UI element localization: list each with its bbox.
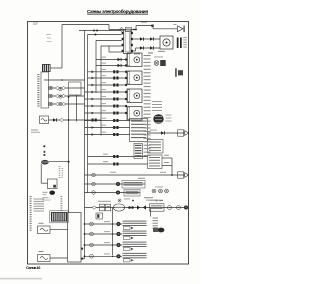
wire: sensor box outputs [162, 157, 172, 159]
node label: sensor text y=224 [123, 221, 147, 222]
wire: diagram border frame [28, 22, 189, 265]
switch box S3 [48, 179, 58, 189]
fuse F3 [38, 255, 51, 262]
wire: harness row y=113 [85, 112, 128, 114]
sensor B6 [116, 254, 120, 258]
wire: sensor row y=245 [85, 244, 123, 246]
node splice pair on fuse row [92, 119, 94, 122]
wire: fuse F2 to ECU [50, 229, 68, 231]
injector Y1 [127, 53, 142, 67]
node switch pin y=33 [122, 32, 124, 34]
wire: chain drop to label [150, 208, 152, 217]
relay box K3 [148, 140, 164, 154]
node label: sensor text y=234 [123, 231, 147, 232]
fuse F1 with symbol [40, 116, 49, 124]
node splice pair y=71.8 [113, 70, 115, 73]
node splice pair y=127.5 [113, 126, 115, 129]
wire: switch feed row 1 [79, 30, 122, 32]
wire: main harness bus 2 [87, 35, 89, 194]
connector X8 hatched [50, 211, 68, 223]
node test point [118, 199, 121, 202]
wire: battery feed top [108, 25, 110, 30]
wire: sensor feed y=184 [85, 183, 146, 185]
ECU main box bottom [68, 213, 82, 263]
connector oval X6 [113, 204, 125, 211]
wire: harness row y=127.5 [85, 127, 131, 129]
wire: switch row 5 [109, 51, 122, 53]
sensor B1 oval [41, 160, 49, 165]
node label: ECU side text [61, 196, 63, 197]
node marks y=200 right [156, 200, 158, 202]
wire: harness row y=78 [88, 77, 128, 79]
wire: sensor feed y=192.5 [85, 192, 141, 194]
wire: harness row y=85 [88, 84, 128, 86]
connector X1 (hatched) [42, 64, 51, 72]
injector Y3 [127, 89, 142, 103]
node label: ECU pin labels column [144, 55, 151, 56]
capacitor C1 double bar [177, 38, 179, 49]
node label: motor labels [183, 37, 187, 38]
node splice pair y=78 [113, 77, 115, 80]
node label: rotated text left margin [30, 196, 32, 197]
node label: rotated text central block [37, 74, 39, 75]
node splice pair y=99 [113, 98, 115, 101]
node label: faint text top-left [33, 23, 38, 24]
node contact column [59, 87, 62, 90]
wire: switch row 4 [101, 45, 122, 47]
sensor G1 [175, 68, 176, 77]
node splice pair y=134.5 [113, 133, 115, 136]
node splice column [43, 145, 45, 147]
wire: feed bus 4 [100, 46, 102, 136]
svg-text:Схемы электрооборудования: Схемы электрооборудования [87, 8, 148, 14]
ground terminal right [184, 206, 188, 210]
wire: dots on collector [68, 119, 70, 121]
ECU U1 box [130, 119, 148, 142]
node label box on chain [150, 204, 165, 211]
relay K2 box [69, 82, 82, 95]
sensor B3 [116, 222, 120, 226]
diode V2 [118, 64, 121, 67]
sensor B0 oval [49, 191, 55, 195]
wire: ECU pin stub [83, 258, 85, 260]
sensor B5 [116, 243, 120, 247]
wire: relay block feed [44, 79, 85, 81]
wire: main harness bus 1 [84, 31, 86, 259]
node splice pair y=85 [113, 84, 115, 87]
node switch pin y=39 [122, 38, 124, 40]
wire: relay K2 drop [76, 95, 78, 122]
wire: harness row y=65.5 [96, 65, 127, 67]
node label: sensor text y=256.3 [123, 253, 147, 254]
sensor box B2 [148, 155, 163, 169]
wire: junction dots on branch bus [112, 223, 114, 225]
wire: harness row y=106 [85, 105, 128, 107]
diode V1 [118, 58, 121, 61]
wire: harness row y=71.8 [88, 71, 128, 73]
wire: switch row 3 [96, 40, 122, 42]
wire: accessory row 2 [133, 50, 136, 52]
wire: harness row y=92 [85, 91, 128, 93]
wire: main feed y=175 [85, 174, 187, 176]
wire: fuse F1 output [49, 119, 102, 121]
wire: output to right edge y=133 [148, 132, 185, 134]
wire: switch feed row 2 [88, 34, 122, 36]
wire: harness row y=134.5 [85, 134, 131, 136]
node label: text block bottom left [34, 199, 45, 200]
wire: fuse F3 to ECU [50, 257, 68, 259]
wire: harness row y=59.5 [96, 59, 127, 61]
node splice pair y=92 [113, 91, 115, 94]
connector X7 bundle [158, 228, 165, 233]
node label: text above connector X5 [152, 101, 162, 102]
node splice pair y=106 [113, 105, 115, 108]
relay box K (central relay unit) [41, 72, 49, 108]
node splice pair y=113 [113, 112, 115, 115]
wire: left collector [68, 97, 70, 213]
fuse F2 [38, 226, 51, 234]
motor M1 (pump) [160, 36, 173, 49]
node label: sensor text y=245 [123, 242, 147, 243]
node splice dots [128, 206, 131, 209]
node ECU pins right edge [81, 248, 83, 250]
wire: lower branch bus [112, 208, 114, 256]
wire: accessory row 1 [133, 38, 160, 40]
node switch pin y=45 [122, 44, 124, 46]
connector block pair [100, 204, 105, 211]
sensor B4 [116, 232, 120, 236]
node label above connector [98, 201, 111, 202]
injector Y4 [127, 107, 142, 121]
connector cluster X9 [152, 189, 156, 193]
wire: harness row y=99 [85, 98, 128, 100]
injector Y2 [127, 71, 142, 85]
node switch pin y=51 [122, 50, 124, 52]
wire: sensor row y=256.3 [85, 255, 123, 257]
switch S2 contact [154, 61, 159, 66]
component C5 below chain [96, 213, 103, 219]
wire: harness row y=120.5 [85, 120, 131, 122]
wire: sensor row y=156.5 [88, 156, 148, 158]
wire: sensor row y=224 [85, 223, 123, 225]
node label: text beside oval [43, 192, 48, 193]
connector joint 2 [177, 206, 181, 210]
fuse F0 on battery feed [120, 28, 123, 31]
node label: right text column bottom [153, 218, 159, 219]
node label: above chain right [144, 197, 153, 198]
battery B+ terminal arrow [178, 26, 184, 32]
connector X5 bundle [153, 114, 163, 124]
svg-text:Схема 16: Схема 16 [26, 265, 41, 270]
wire: sensor row y=234 [85, 233, 123, 235]
node label: vertical labels [59, 166, 61, 167]
wire: relay output row y=104 [49, 103, 85, 105]
switch S1 (ignition) capsule [124, 30, 132, 54]
connector joint 1 [168, 206, 172, 210]
connector DLC hatched box [134, 144, 143, 159]
wire: diagnostic chain y=207.5 [85, 207, 186, 209]
node splice pair y=120.5 [113, 119, 115, 122]
wire: relay output row y=88 [49, 87, 85, 89]
connector mating pair [137, 205, 140, 209]
wire: relay output row y=96 [49, 95, 85, 97]
wire: sensor row y=164 [88, 163, 148, 165]
wire: feed bus 3 [95, 41, 97, 94]
wire: sensor B1 output [49, 161, 69, 163]
wire: top feed from junction block [62, 24, 109, 26]
node label: 30A text [31, 130, 38, 131]
wire: sensor B1 drop [40, 164, 42, 183]
